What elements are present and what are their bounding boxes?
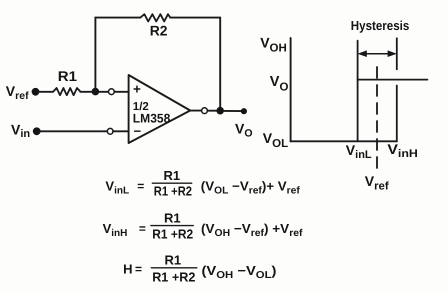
equation 3 fraction numerator R1	[165, 253, 182, 268]
svg-text:Vin: Vin	[11, 121, 30, 140]
graph vertical line at VinH (lower segment)	[396, 86, 398, 142]
label Vref input	[6, 83, 29, 102]
graph y-axis	[290, 38, 292, 141]
equation 2 fraction numerator R1	[164, 210, 181, 225]
svg-text:VinH: VinH	[387, 141, 418, 160]
equation 3 fraction denominator R1 +R2	[152, 269, 195, 284]
svg-text:VO: VO	[235, 121, 253, 140]
equation 1 fraction bar	[152, 182, 191, 184]
svg-text:(VOH −VOL): (VOH −VOL)	[202, 263, 277, 281]
svg-text:+: +	[133, 82, 141, 97]
svg-text:−: −	[134, 124, 142, 139]
node: Vin input terminal	[33, 127, 41, 135]
equation 3: H left-hand side	[123, 262, 142, 277]
svg-text:H: H	[123, 262, 132, 277]
pin label: + (non-inverting)	[133, 82, 141, 97]
graph vertical line at VinL	[357, 41, 359, 142]
graph label VOH	[260, 34, 287, 54]
wire: output pin circle to feedback node	[207, 110, 216, 112]
wire: Vref terminal to R1	[38, 91, 53, 93]
svg-text:VOL: VOL	[263, 130, 288, 150]
svg-text:R1: R1	[164, 168, 181, 183]
svg-text:VOH: VOH	[260, 34, 287, 54]
svg-text:R2: R2	[150, 23, 168, 39]
svg-text:(VOL −Vref)+ Vref: (VOL −Vref)+ Vref	[201, 179, 301, 197]
svg-text:VinH: VinH	[103, 221, 128, 239]
wire: − pin circle to op-amp body	[113, 130, 129, 132]
wire: feedback vertical down to output node	[219, 18, 221, 107]
wire: R2 to right feedback corner	[170, 17, 220, 19]
label: 1/2	[133, 101, 149, 113]
wire: op-amp apex to output pin circle	[190, 110, 201, 112]
svg-text:R1 +R2: R1 +R2	[154, 184, 192, 199]
svg-text:(VOH −Vref) +Vref: (VOH −Vref) +Vref	[201, 221, 303, 239]
equation 2 fraction denominator R1 +R2	[152, 227, 193, 242]
node A: junction of R1, R2 feedback and op-amp + input	[92, 88, 100, 96]
graph label VOL	[263, 130, 288, 150]
svg-text:VinL: VinL	[105, 179, 129, 197]
pin: op-amp output (open circle)	[202, 108, 208, 114]
wire: R1 to inverting-node junction	[80, 91, 95, 93]
resistor R1	[53, 88, 80, 95]
svg-text:R1: R1	[164, 210, 181, 225]
node: output junction with feedback	[216, 107, 224, 115]
equation 2: VinH left-hand side	[103, 221, 146, 239]
resistor R2	[140, 14, 170, 21]
equation 1 right-hand side	[201, 179, 301, 197]
node: Vref input terminal	[32, 88, 40, 96]
label: LM358	[133, 112, 171, 126]
graph dashed vertical at Vref	[376, 67, 378, 168]
svg-text:=: =	[137, 179, 144, 193]
equation 2 right-hand side	[201, 221, 303, 239]
svg-text:Vref: Vref	[6, 83, 29, 102]
wire: junction to + input pin circle	[99, 91, 108, 93]
op-amp U1 1/2 LM358	[129, 75, 191, 143]
svg-text:Hysteresis: Hysteresis	[351, 18, 410, 33]
value label R1	[58, 68, 77, 84]
svg-text:R1: R1	[165, 253, 182, 268]
label VO output	[235, 121, 253, 140]
wire: top horizontal to R2	[95, 17, 140, 19]
graph label VO	[270, 74, 289, 93]
pin: op-amp inverting input (open circle)	[107, 128, 113, 134]
equation 1 fraction denominator R1 +R2	[154, 184, 192, 199]
wire: + pin circle to op-amp body	[114, 91, 128, 93]
svg-text:=: =	[139, 221, 146, 235]
equation 3 fraction bar	[151, 267, 197, 269]
graph x-axis (VOL level)	[291, 140, 397, 142]
svg-text:=: =	[135, 262, 142, 276]
svg-text:VinL: VinL	[346, 142, 372, 161]
label Vin input	[11, 121, 30, 140]
graph label Vref	[365, 173, 389, 193]
svg-text:R1: R1	[58, 68, 77, 84]
wire: Vin terminal to − input pin circle	[39, 130, 107, 132]
node: VO output terminal	[241, 108, 247, 114]
value label R2	[150, 23, 168, 39]
graph vertical line at VinH (upper segment)	[396, 38, 398, 69]
svg-text:Vref: Vref	[365, 173, 389, 193]
graph label VinL	[346, 142, 372, 161]
wire: output node to VO terminal	[224, 110, 241, 112]
equation 1 fraction numerator R1	[164, 168, 181, 183]
pin label: − (inverting)	[134, 124, 142, 139]
svg-text:VO: VO	[270, 74, 289, 93]
graph annotation: Hysteresis title	[351, 18, 410, 33]
equation 1: VinL left-hand side	[105, 179, 144, 197]
graph label VinH	[387, 141, 418, 160]
wire: feedback vertical from node A up to R2	[94, 18, 96, 92]
graph hysteresis double arrow	[358, 50, 397, 57]
graph output high level line (VO step)	[358, 79, 428, 81]
svg-text:R1 +R2: R1 +R2	[152, 269, 195, 284]
equation 2 fraction bar	[151, 225, 193, 227]
equation 3 right-hand side	[202, 263, 277, 281]
svg-text:R1 +R2: R1 +R2	[152, 227, 193, 242]
pin: op-amp non-inverting input (open circle)	[109, 89, 115, 95]
